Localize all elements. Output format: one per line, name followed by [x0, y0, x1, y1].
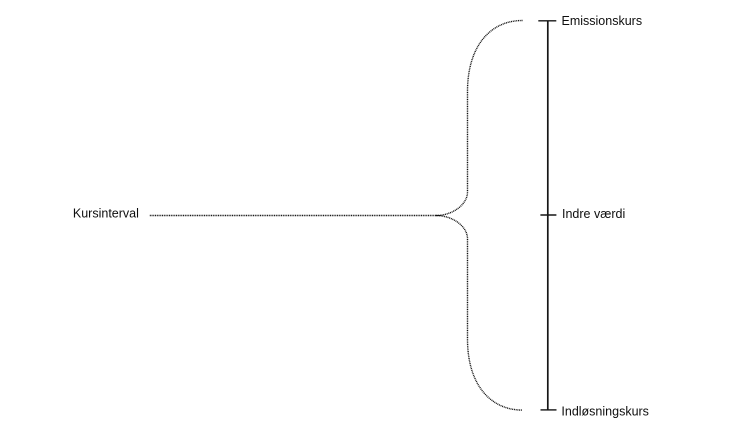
svg-text:Indre værdi: Indre værdi [562, 207, 625, 221]
svg-text:Emissionskurs: Emissionskurs [562, 14, 643, 28]
svg-text:Indløsningskurs: Indløsningskurs [561, 404, 649, 418]
svg-text:Kursinterval: Kursinterval [73, 207, 139, 221]
